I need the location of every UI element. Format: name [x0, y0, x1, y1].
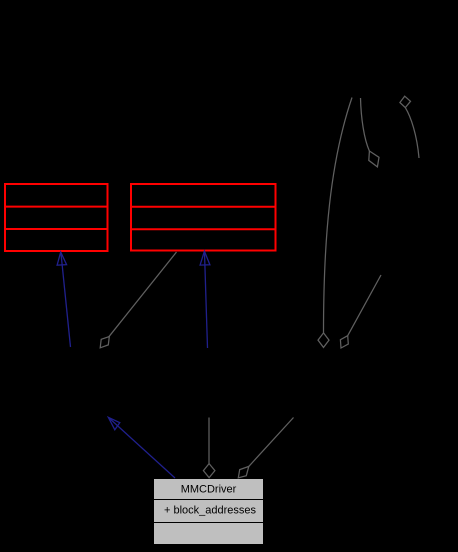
inheritance edge E1 (to left red box): [57, 252, 70, 347]
class box (red) right: [130, 184, 277, 251]
class box (red) left: [4, 184, 109, 251]
usage edge G1 (diamond to right red box): [100, 252, 176, 348]
svg-text:MMCDriver: MMCDriver: [181, 484, 237, 496]
usage edge G4 (short curve, diamond at bottom): [361, 98, 380, 167]
usage edge G3 (diamond up-right): [340, 275, 381, 348]
usage edge G5 (diamond at top, curve down-right): [400, 96, 419, 158]
usage edge G7 (diagonal into MMCDriver top right): [238, 418, 293, 478]
inheritance edge E2 (to right red box): [200, 251, 210, 348]
class box MMCDriver: [154, 479, 264, 545]
svg-text:+ block_addresses: + block_addresses: [164, 505, 257, 517]
usage edge G2 (long curve from top): [318, 98, 352, 348]
usage edge G6 (vertical into MMCDriver top): [203, 418, 215, 478]
inheritance edge E3 (from MMCDriver up-left): [108, 417, 175, 478]
